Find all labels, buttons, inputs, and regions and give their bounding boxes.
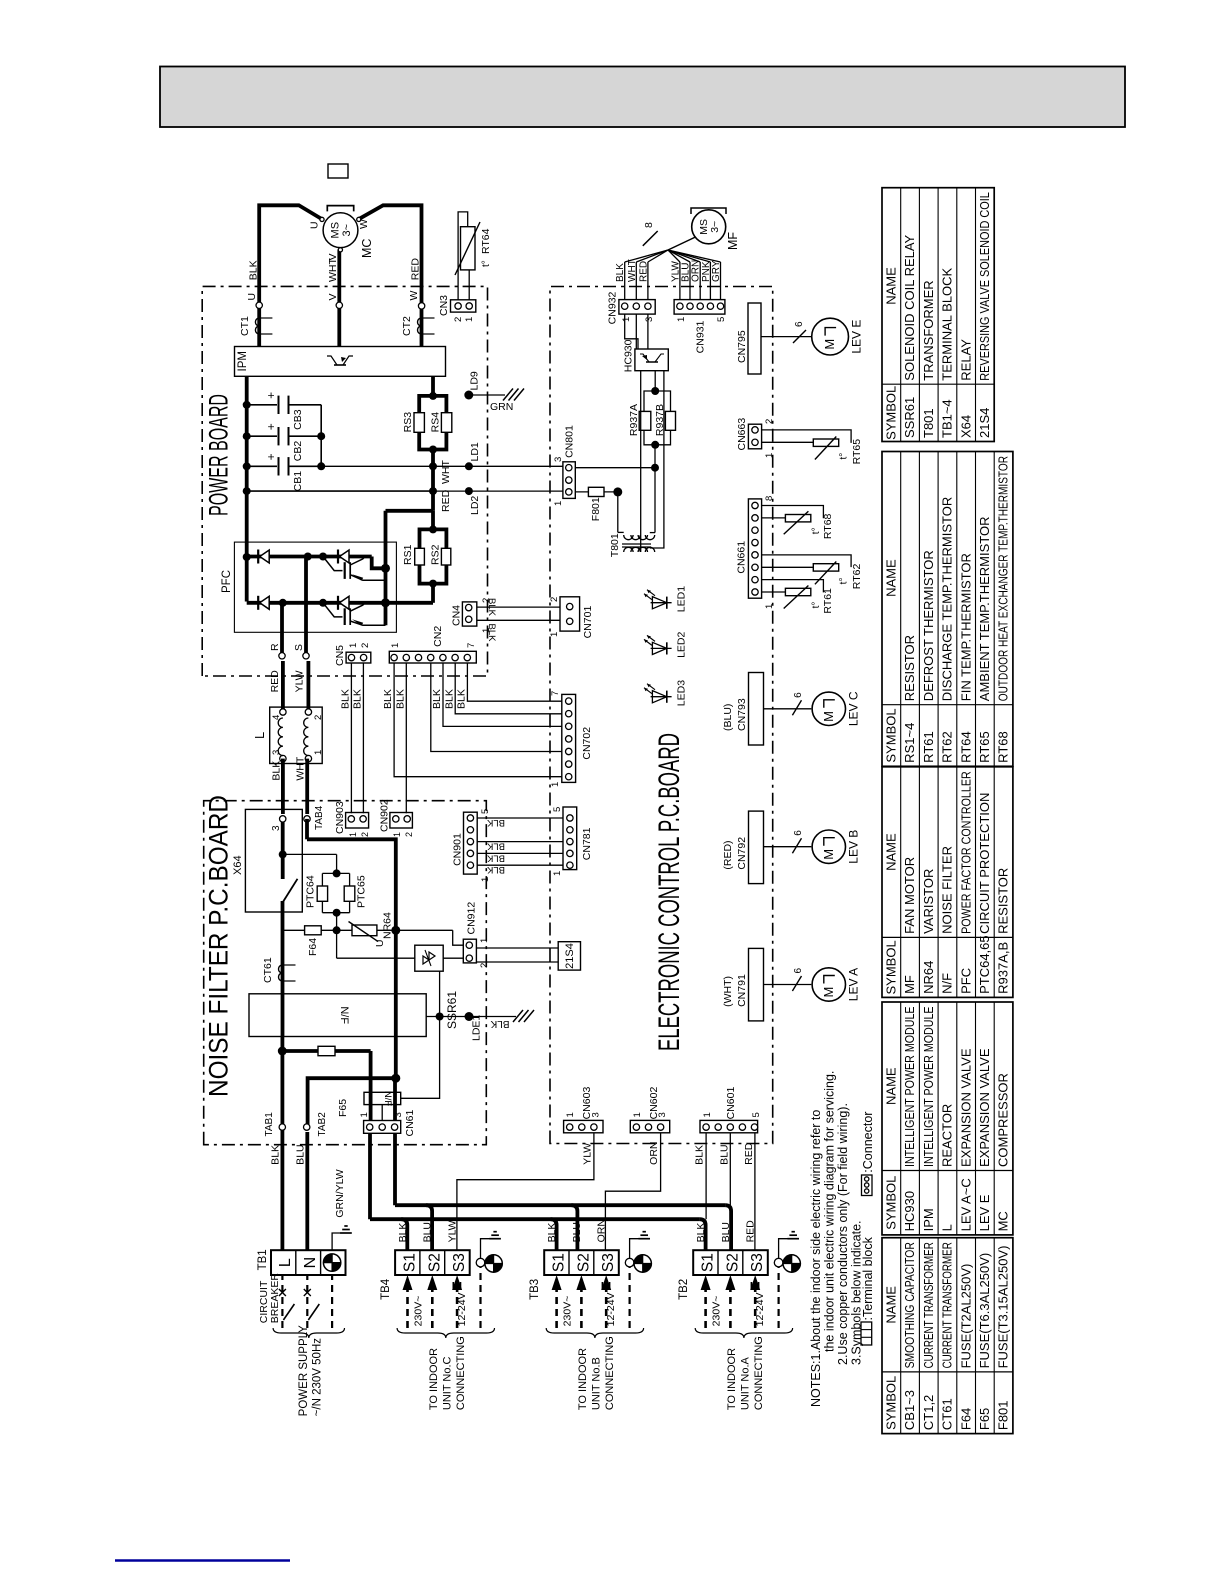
PFC block box [234, 542, 396, 632]
svg-text:HC930: HC930 [623, 339, 635, 372]
svg-text:CT61: CT61 [940, 1398, 955, 1430]
wire ORN [605, 1133, 660, 1250]
svg-text:TB1: TB1 [257, 1249, 269, 1270]
power board outline [202, 286, 487, 676]
svg-text:the indoor unit electric wirin: the indoor unit electric wiring diagram … [823, 1071, 837, 1352]
svg-text:R: R [269, 643, 281, 651]
svg-text:CN701: CN701 [582, 606, 594, 639]
motor bracket [327, 206, 353, 212]
svg-text:BLK: BLK [695, 1223, 707, 1243]
svg-text:RT64: RT64 [480, 228, 492, 254]
capacitor CB3 [247, 404, 277, 406]
svg-text:1: 1 [479, 938, 490, 943]
svg-text:1: 1 [390, 643, 401, 648]
svg-text:TO INDOOR: TO INDOOR [726, 1348, 738, 1410]
svg-text:3: 3 [657, 1112, 668, 1117]
svg-text:(BLU): (BLU) [722, 704, 734, 731]
svg-text:N/F: N/F [338, 1006, 350, 1024]
TB2 ground [774, 1258, 783, 1267]
terminal 3 [280, 816, 286, 822]
SSR61 left wire [337, 957, 415, 959]
svg-text:~/N 230V 50Hz: ~/N 230V 50Hz [312, 1338, 324, 1417]
svg-text:BLK: BLK [340, 689, 352, 709]
svg-text:TB3: TB3 [529, 1279, 541, 1300]
svg-text:NR64: NR64 [382, 912, 394, 939]
svg-text:SSR61: SSR61 [445, 991, 459, 1029]
svg-text:1: 1 [348, 832, 358, 837]
svg-text:WHT: WHT [627, 259, 638, 282]
svg-text:t°: t° [811, 602, 822, 609]
small N/F box [364, 1092, 401, 1104]
svg-text:CN793: CN793 [736, 698, 748, 731]
svg-text:TERMINAL BLOCK: TERMINAL BLOCK [940, 267, 955, 380]
LEV E [761, 336, 812, 338]
WHT line to T801 [575, 467, 655, 469]
svg-text:6: 6 [793, 692, 804, 698]
svg-text:1: 1 [464, 317, 475, 322]
svg-text:RS1: RS1 [402, 544, 414, 565]
svg-text:1: 1 [676, 317, 687, 322]
X64 contact blade [283, 879, 298, 903]
thermistor RT61 [762, 580, 824, 593]
thermistor RT64 [458, 212, 468, 300]
svg-text:t°: t° [811, 527, 822, 534]
svg-text:F65: F65 [977, 1408, 992, 1430]
svg-text:NOISE FILTER P.C.BOARD: NOISE FILTER P.C.BOARD [204, 795, 234, 1097]
svg-text:MS: MS [330, 222, 342, 239]
motor terminals [320, 217, 324, 221]
svg-text:CURRENT TRANSFORMER: CURRENT TRANSFORMER [921, 1242, 936, 1368]
svg-text:PTC64: PTC64 [305, 875, 317, 908]
svg-text:L: L [277, 1258, 294, 1267]
svg-text:3: 3 [271, 750, 282, 755]
svg-text:RESISTOR: RESISTOR [902, 635, 917, 701]
svg-text:YLW: YLW [293, 670, 305, 692]
svg-text:CONNECTING: CONNECTING [753, 1336, 765, 1410]
svg-text:N: N [302, 1257, 319, 1269]
svg-text:POWER BOARD: POWER BOARD [204, 394, 234, 516]
svg-text:WHT: WHT [295, 756, 307, 780]
svg-text:8: 8 [764, 496, 775, 501]
svg-text:N/F: N/F [940, 973, 955, 994]
thermistor RT68 [762, 506, 824, 519]
svg-text:BLU: BLU [295, 1144, 307, 1164]
svg-text:S3: S3 [600, 1253, 617, 1272]
svg-text:R937A: R937A [628, 404, 640, 436]
node LD9 with ground [464, 391, 473, 400]
svg-text:RT62: RT62 [940, 731, 955, 763]
svg-text:V: V [327, 253, 339, 260]
svg-text:MF: MF [902, 975, 917, 994]
BLU branch to TAB2 [308, 1078, 396, 1127]
svg-text:BLU: BLU [422, 1222, 434, 1242]
svg-text:LD9: LD9 [469, 371, 481, 390]
wire S [304, 557, 308, 656]
svg-text:CT1,2: CT1,2 [921, 1395, 936, 1430]
CN2 wires [394, 663, 562, 777]
resistors R937A R937B [654, 371, 656, 391]
svg-text:6: 6 [794, 321, 805, 327]
wire to CN61 pin3 [393, 1078, 397, 1120]
svg-text:S: S [293, 644, 305, 651]
svg-text:PFC: PFC [221, 570, 233, 593]
svg-text:1: 1 [348, 643, 359, 648]
node LD1 / WHT line [321, 465, 563, 467]
terminal block TB2 [693, 1250, 768, 1275]
module HC930 [635, 349, 668, 371]
svg-text:HC930: HC930 [902, 1191, 917, 1231]
svg-text:CN902: CN902 [379, 799, 391, 832]
svg-text:REVERSING VALVE SOLENOID COIL: REVERSING VALVE SOLENOID COIL [977, 192, 992, 381]
svg-text:INTELLIGENT POWER MODULE: INTELLIGENT POWER MODULE [902, 1006, 917, 1167]
terminal TAB2 [304, 1124, 310, 1130]
svg-text:WHT: WHT [440, 460, 452, 484]
PFC diode D2b [337, 596, 339, 610]
current transformer CT61 [279, 965, 283, 981]
svg-text:CN791: CN791 [736, 974, 748, 1007]
svg-text:3: 3 [271, 825, 282, 831]
svg-text:CN61: CN61 [404, 1109, 416, 1136]
svg-text:3: 3 [393, 1112, 404, 1117]
TB3 ground [625, 1258, 634, 1267]
compressor motor MC [323, 213, 358, 248]
svg-text:UNIT No.A: UNIT No.A [740, 1356, 752, 1410]
svg-text:BLK: BLK [456, 689, 468, 709]
connector CN901 [464, 812, 478, 874]
svg-text:NAME: NAME [884, 267, 899, 305]
LEV C [764, 708, 812, 710]
svg-text:LEV A~C: LEV A~C [958, 1178, 973, 1231]
svg-text:L: L [940, 1224, 955, 1231]
LED2 [651, 647, 672, 649]
svg-text::Terminal block: :Terminal block [861, 1236, 875, 1320]
svg-text:S2: S2 [576, 1253, 593, 1272]
svg-text:NOTES:1.About the indoor side: NOTES:1.About the indoor side electric w… [809, 1110, 823, 1407]
wires CN901 to CN781 [477, 817, 563, 819]
svg-text:5: 5 [552, 807, 563, 812]
svg-text:1: 1 [553, 501, 564, 506]
svg-text:SYMBOL: SYMBOL [884, 708, 899, 762]
svg-text:AMBIENT TEMP.THERMISTOR: AMBIENT TEMP.THERMISTOR [977, 517, 992, 702]
svg-text:BLK: BLK [693, 1145, 705, 1165]
svg-text:RELAY: RELAY [958, 339, 973, 381]
svg-text:RS4: RS4 [430, 412, 442, 433]
wire bundle 8 [668, 237, 696, 250]
svg-text:CN795: CN795 [736, 330, 748, 363]
svg-text:2: 2 [453, 317, 464, 322]
svg-text:TB1~4: TB1~4 [940, 399, 955, 438]
svg-text:BLK: BLK [486, 598, 497, 617]
connector CN801 [563, 462, 575, 499]
relay X64 [245, 809, 302, 912]
svg-text:BLK: BLK [546, 1223, 558, 1243]
terminal TAB1 [279, 1124, 285, 1130]
svg-text:S1: S1 [700, 1253, 717, 1272]
svg-text:CN3: CN3 [438, 295, 450, 316]
svg-text:2: 2 [479, 963, 490, 968]
svg-text:LEV C: LEV C [847, 691, 861, 726]
svg-text:CN931: CN931 [695, 320, 707, 353]
svg-text:PFC: PFC [958, 968, 973, 994]
svg-text:CN901: CN901 [452, 833, 464, 866]
svg-text:SYMBOL: SYMBOL [884, 386, 899, 440]
svg-text:IPM: IPM [237, 351, 249, 371]
svg-text:CURRENT TRANSFORMER: CURRENT TRANSFORMER [940, 1242, 955, 1368]
svg-text:NOISE FILTER: NOISE FILTER [940, 846, 955, 934]
svg-text:M: M [821, 711, 836, 722]
svg-text:230V~: 230V~ [562, 1296, 574, 1327]
small empty box [328, 164, 348, 178]
svg-text:CN601: CN601 [725, 1087, 737, 1120]
terminal block TB4 [395, 1250, 470, 1275]
svg-text:CT2: CT2 [401, 316, 413, 336]
connector CN5 [346, 652, 371, 663]
svg-text:2: 2 [404, 832, 414, 837]
connector CN912 [463, 939, 476, 963]
svg-text:RS1~4: RS1~4 [902, 723, 917, 763]
svg-text:1: 1 [621, 317, 632, 322]
connector CN931 [674, 300, 725, 315]
svg-text:TAB2: TAB2 [317, 1112, 328, 1137]
wire BLK reactor out [281, 759, 285, 814]
connector CN603 [564, 1120, 603, 1132]
CN931 wires [679, 262, 681, 300]
svg-text:CB1: CB1 [292, 471, 304, 492]
node LDE1 ground [426, 1016, 516, 1018]
svg-text:1: 1 [359, 1112, 370, 1117]
T801 secondary wires [640, 371, 642, 552]
svg-text:1: 1 [764, 604, 775, 609]
capacitor CB2 [247, 435, 277, 437]
svg-text:2: 2 [360, 643, 371, 648]
svg-text:RED: RED [440, 489, 452, 512]
svg-text:ORN: ORN [648, 1141, 660, 1164]
svg-text:RT65: RT65 [977, 731, 992, 763]
svg-text:RT65: RT65 [851, 439, 863, 465]
svg-text:ORN: ORN [596, 1219, 608, 1242]
LEV A [764, 984, 812, 986]
wires CN912 to 21S4 [476, 947, 558, 949]
fuse F65 line [282, 1049, 370, 1053]
svg-text:1: 1 [480, 877, 491, 882]
reversing valve coil 21S4 [558, 942, 580, 970]
symbol table 5 (CB1~3...) [882, 1238, 1013, 1434]
svg-text:SYMBOL: SYMBOL [884, 940, 899, 994]
svg-text:IPM: IPM [921, 1208, 936, 1231]
svg-text:5: 5 [716, 317, 727, 322]
wire RED TB2-S3 [754, 1133, 756, 1250]
wire U phase [259, 205, 321, 346]
svg-text:2: 2 [360, 832, 370, 837]
svg-text:T801: T801 [609, 533, 621, 557]
TB1 brace [273, 1328, 344, 1338]
thermistor RT65 [762, 430, 852, 443]
svg-text:M: M [821, 849, 836, 860]
svg-text:3~: 3~ [709, 221, 721, 233]
svg-text:NAME: NAME [884, 559, 899, 597]
svg-text:RED: RED [269, 670, 281, 693]
svg-text:RT64: RT64 [958, 731, 973, 763]
noise filter N/F [249, 994, 426, 1037]
wire W phase [360, 205, 422, 346]
wires CN4 to CN701 [477, 606, 560, 608]
svg-text:RED: RED [743, 1142, 755, 1165]
PFC diode D1a [257, 550, 259, 564]
svg-text:GRN: GRN [490, 401, 513, 413]
wire BLU TB2-S2 [729, 1133, 731, 1205]
LED1 [651, 602, 672, 604]
svg-text:FUSE(T3.15AL250V): FUSE(T3.15AL250V) [996, 1246, 1011, 1369]
svg-text:BLU: BLU [571, 1222, 583, 1242]
svg-text:BLK: BLK [270, 1145, 282, 1165]
svg-text:RS2: RS2 [430, 544, 442, 565]
capacitor common wire [320, 405, 322, 467]
svg-text:2: 2 [764, 419, 775, 424]
svg-text:EXPANSION VALVE: EXPANSION VALVE [958, 1048, 973, 1167]
svg-text::Connector: :Connector [861, 1112, 875, 1173]
svg-text:R937A,B: R937A,B [996, 942, 1011, 994]
svg-text:BLK: BLK [397, 1223, 409, 1243]
X64 coil branch [283, 853, 337, 855]
protectors PTC64 PTC65 [333, 869, 341, 877]
TB2 ground lead [777, 1267, 779, 1328]
svg-text:CN792: CN792 [736, 837, 748, 870]
circuit breaker leads [281, 1275, 283, 1328]
svg-text:COMPRESSOR: COMPRESSOR [996, 1073, 1011, 1167]
svg-text:N/F: N/F [382, 1091, 393, 1107]
S1 bus BLK [368, 1133, 372, 1219]
terminal block TB1 [271, 1250, 346, 1275]
terminal block TB3 [544, 1250, 619, 1275]
svg-text:RT68: RT68 [996, 731, 1011, 763]
svg-text:POWER FACTOR CONTROLLER: POWER FACTOR CONTROLLER [958, 771, 973, 934]
svg-text:7: 7 [550, 691, 561, 696]
svg-text:F64: F64 [307, 938, 319, 956]
connector CN795 [748, 303, 761, 374]
svg-text:LD2: LD2 [469, 496, 481, 515]
svg-text:GRN/YLW: GRN/YLW [334, 1169, 346, 1217]
wire WHT reactor out [305, 759, 309, 814]
svg-text:2: 2 [313, 715, 324, 720]
fan motor MF [692, 210, 726, 244]
svg-text:1: 1 [552, 871, 563, 876]
svg-text:BLK: BLK [486, 841, 505, 852]
svg-text:S2: S2 [426, 1253, 443, 1272]
svg-text:GRY: GRY [711, 260, 722, 282]
svg-text:SYMBOL: SYMBOL [884, 1376, 899, 1430]
svg-text:MC: MC [996, 1211, 1011, 1231]
resistors RS3 RS4 [419, 396, 433, 413]
SSR61 right wire [443, 957, 463, 959]
CN932 wires [624, 262, 626, 300]
legend connector [862, 1175, 873, 1196]
svg-text:1: 1 [632, 1112, 643, 1117]
symbol table 3 (MF...) [882, 767, 1013, 998]
svg-text:(RED): (RED) [722, 840, 734, 869]
reactor L [270, 707, 323, 763]
svg-text:t°: t° [839, 453, 850, 460]
connector CN791 [749, 948, 764, 1021]
fuse F64 line [283, 929, 453, 931]
connector CN702 [562, 694, 576, 782]
svg-text:YLW: YLW [447, 1220, 459, 1242]
svg-text:1: 1 [764, 453, 775, 458]
svg-text:5: 5 [751, 1112, 762, 1117]
svg-text:8: 8 [643, 222, 655, 228]
svg-text:F64: F64 [958, 1408, 973, 1430]
svg-text:21S4: 21S4 [977, 408, 992, 438]
svg-text:LEV B: LEV B [847, 830, 861, 864]
svg-text:INTELLIGENT POWER MODULE: INTELLIGENT POWER MODULE [921, 1006, 936, 1167]
svg-text:F801: F801 [590, 497, 602, 521]
connector CN661 [748, 499, 761, 598]
svg-text:V: V [327, 293, 339, 300]
SSR61 bottom wire [439, 971, 441, 1016]
LEV B [764, 846, 812, 848]
thermistor RT62 [762, 555, 852, 567]
svg-text:RED: RED [745, 1220, 757, 1243]
solid state relay SSR61 [415, 945, 443, 971]
svg-text:SSR61: SSR61 [902, 397, 917, 438]
wire BLK TB2-S1 [705, 1133, 707, 1219]
svg-text:BREAKER: BREAKER [269, 1273, 281, 1324]
electronic control board outline [550, 287, 773, 1144]
svg-text:EXPANSION VALVE: EXPANSION VALVE [977, 1048, 992, 1167]
connector CN792 [749, 811, 764, 884]
svg-text:LEV E: LEV E [850, 320, 864, 354]
svg-text:LDE1: LDE1 [471, 1015, 483, 1041]
svg-text:F65: F65 [337, 1099, 349, 1117]
svg-text:W: W [358, 219, 370, 229]
svg-text:CIRCUIT PROTECTION: CIRCUIT PROTECTION [977, 793, 992, 934]
wire F65 to CN61 pin1 [369, 1051, 373, 1121]
legend terminal block [861, 1322, 872, 1345]
svg-text:X64: X64 [232, 855, 244, 875]
svg-text:S1: S1 [551, 1253, 568, 1272]
symbol table 4 (HC930...) [882, 1002, 1013, 1235]
resistors RS1 RS2 [420, 529, 434, 548]
LED3 [651, 696, 672, 698]
svg-text:t°: t° [481, 260, 492, 267]
connector CN793 [749, 673, 764, 746]
svg-text:RED: RED [638, 261, 649, 282]
connector CN932 [619, 300, 655, 315]
svg-text:RED: RED [409, 258, 421, 281]
svg-text:BLK: BLK [486, 624, 497, 643]
svg-text:1: 1 [702, 1112, 713, 1117]
svg-text:21S4: 21S4 [564, 943, 576, 969]
svg-text:NAME: NAME [884, 1286, 899, 1324]
connector CN701 [560, 597, 580, 631]
svg-text:RT62: RT62 [851, 564, 863, 590]
connector CN4 [462, 602, 476, 626]
svg-text:7: 7 [466, 643, 477, 648]
svg-text:S2: S2 [725, 1253, 742, 1272]
wire RS3/4 to LD1 LD2 [431, 450, 435, 511]
svg-text:FUSE(T6.3AL250V): FUSE(T6.3AL250V) [977, 1253, 992, 1369]
svg-text:CN801: CN801 [564, 425, 576, 458]
svg-text:U: U [246, 293, 258, 301]
transformer T801 [618, 531, 624, 533]
svg-text:LED3: LED3 [676, 680, 688, 706]
svg-text:BLK: BLK [490, 1018, 509, 1029]
svg-text:DISCHARGE TEMP.THERMISTOR: DISCHARGE TEMP.THERMISTOR [940, 497, 955, 701]
PFC row2 wire [247, 601, 433, 605]
node LD2 / RED line [247, 490, 433, 492]
svg-text:S3: S3 [749, 1253, 766, 1272]
svg-text:TRANSFORMER: TRANSFORMER [921, 280, 936, 380]
svg-text:6: 6 [793, 830, 804, 836]
